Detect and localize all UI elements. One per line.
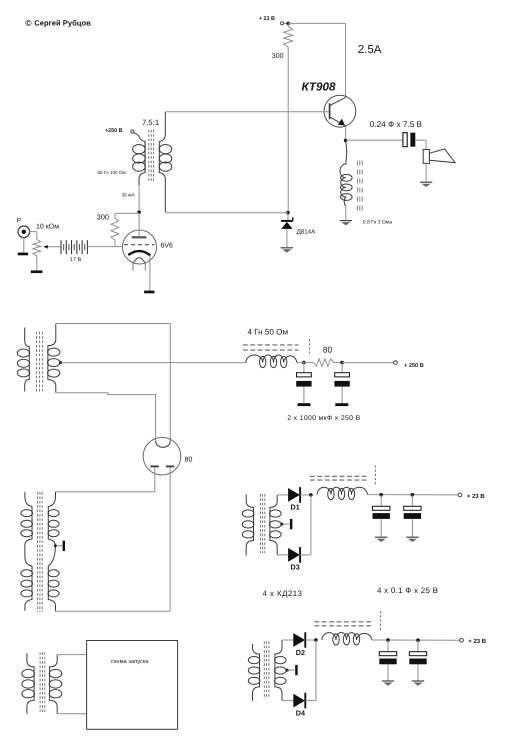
label 300 (R1) xyxy=(272,53,284,60)
wire L2 to terminal xyxy=(367,494,458,496)
ground T5 tap bar xyxy=(295,665,298,675)
capacitor C-out plate 1 xyxy=(403,133,407,147)
wire right plate lead xyxy=(56,467,171,611)
terminal +250V output xyxy=(394,361,398,365)
input jack pin xyxy=(22,230,26,234)
label +250V xyxy=(105,128,123,134)
svg-text:4 х 0.1 Ф х 25 В: 4 х 0.1 Ф х 25 В xyxy=(377,586,438,595)
wire jack to ground xyxy=(23,238,25,253)
zener VD1 triangle xyxy=(281,222,292,229)
copyright text xyxy=(34,18,91,27)
svg-text:D2: D2 xyxy=(296,648,305,657)
wire T4 bottom to D3 xyxy=(277,554,288,556)
transistor Q1 base bar xyxy=(329,103,331,119)
svg-text:2 х 1000 мкФ х 250 В: 2 х 1000 мкФ х 250 В xyxy=(287,415,360,422)
ground C1 xyxy=(298,403,311,406)
tube V1 anode plate xyxy=(132,236,147,238)
label D1 xyxy=(291,503,300,512)
capacitor C2 1000uF xyxy=(334,363,349,404)
zener VD1 cathode bar xyxy=(281,217,293,221)
wire jack to pot xyxy=(30,232,37,240)
wire T4 top to D1 xyxy=(277,494,288,496)
wire collector xyxy=(345,23,347,97)
tube V2 right plate xyxy=(166,465,174,467)
node T4 center tap xyxy=(281,523,284,526)
label 60H 100ohm xyxy=(98,170,126,175)
label P xyxy=(17,217,22,224)
wire speaker to ground xyxy=(425,163,427,182)
ground C6 xyxy=(412,681,424,686)
svg-text:КТ908: КТ908 xyxy=(302,81,336,94)
node zener junction xyxy=(286,211,290,215)
wire node to R3 xyxy=(297,362,314,364)
choke L1 core xyxy=(243,345,299,350)
choke L3 core end mark xyxy=(379,611,381,630)
tube V2 80 envelope xyxy=(143,437,181,475)
choke L1 4H xyxy=(246,355,297,368)
tube V1 heater legs xyxy=(133,264,145,271)
capacitor C4 0.1F xyxy=(404,495,421,537)
tube V2 filament arc xyxy=(156,441,171,448)
label 17V xyxy=(70,257,82,263)
capacitor C1 1000uF xyxy=(296,363,311,404)
tube V1 6V6 envelope xyxy=(123,230,157,264)
label 300 (R2) xyxy=(97,212,109,221)
node T5 center tap xyxy=(286,669,289,672)
label D4 xyxy=(296,708,305,717)
ground C5 xyxy=(382,681,394,686)
svg-text:©: © xyxy=(25,18,32,28)
transistor Q1 KT908 circle xyxy=(324,95,356,127)
wire left plate lead xyxy=(56,467,155,492)
wire cap to speaker xyxy=(415,140,426,149)
svg-text:D4: D4 xyxy=(296,708,305,717)
label 80 (R3) xyxy=(323,344,333,354)
transformer T5 core xyxy=(264,641,269,698)
transformer T4 core xyxy=(260,494,264,553)
label +250V output xyxy=(404,363,424,369)
choke L2 xyxy=(317,487,367,499)
svg-text:+ 23 В: + 23 В xyxy=(467,493,486,500)
label startup circuit xyxy=(111,659,150,665)
inductor 0.8H winding xyxy=(340,140,352,206)
label 4xKD213 xyxy=(263,589,303,598)
ground C2 xyxy=(335,403,348,406)
node filter-1 junction xyxy=(302,361,306,365)
svg-text:300: 300 xyxy=(97,212,109,221)
svg-text:80: 80 xyxy=(323,344,333,354)
node cap-4 junction xyxy=(411,493,415,497)
wire battery to grid xyxy=(87,246,123,248)
transformer T4 secondary winding xyxy=(270,495,282,555)
diode D4 xyxy=(293,693,305,709)
label 6V6 xyxy=(161,242,174,249)
node emitter junction xyxy=(344,139,348,143)
potentiometer wiper arrow xyxy=(43,245,61,249)
wire inductor to ground xyxy=(345,207,347,221)
capacitor C3 0.1F xyxy=(373,495,390,537)
wire T6 bottom to box xyxy=(57,713,86,715)
wire D2 to node xyxy=(305,639,316,641)
choke L3 core xyxy=(314,622,371,626)
wire T2 top lead xyxy=(56,323,171,325)
copyright symbol xyxy=(25,18,32,28)
transformer T6 primary winding xyxy=(22,653,35,714)
wire T6 top to box xyxy=(57,654,86,656)
wire T2 bottom lead xyxy=(56,393,156,441)
node cap-5 junction xyxy=(386,638,390,642)
tube V1 grid xyxy=(124,244,155,246)
transformer T3 secondary winding xyxy=(48,492,59,611)
node cap-6 junction xyxy=(416,638,420,642)
transformer T1 core xyxy=(149,130,154,181)
terminal +23V out-1 xyxy=(458,493,462,497)
wire T1 primary to anode node xyxy=(138,182,140,212)
choke L2 core end mark xyxy=(374,465,376,484)
svg-text:Сергей Рубцов: Сергей Рубцов xyxy=(34,18,91,27)
label +23V out-2 xyxy=(468,638,487,645)
label 10kOhm xyxy=(36,223,59,230)
label 0.8H 3ohm xyxy=(363,219,392,225)
svg-text:6V6: 6V6 xyxy=(161,242,174,249)
svg-text:Р: Р xyxy=(17,217,22,224)
capacitor C6 0.1F xyxy=(409,640,426,680)
speaker driver xyxy=(423,150,429,164)
transformer T1 primary winding xyxy=(133,133,146,182)
wire terminal to node xyxy=(284,22,288,24)
diode D2 xyxy=(293,632,305,648)
ground T3 tap bar xyxy=(63,541,65,551)
node filter-2 junction xyxy=(340,361,344,365)
ground zener xyxy=(281,248,293,253)
speaker horn xyxy=(430,149,456,163)
terminal +250V xyxy=(131,130,134,133)
tube V2 left plate xyxy=(150,465,158,467)
resistor R3 80 xyxy=(313,359,333,367)
transformer T3 primary winding xyxy=(21,492,33,611)
svg-text:D3: D3 xyxy=(291,563,300,572)
svg-text:+ 23 В: + 23 В xyxy=(259,16,275,22)
label 4x0.1F xyxy=(377,586,438,595)
ground speaker xyxy=(420,182,432,187)
node cap-3 junction xyxy=(379,493,383,497)
transformer T5 secondary winding xyxy=(275,640,287,701)
svg-text:60 Гн 100 Ом: 60 Гн 100 Ом xyxy=(98,170,126,175)
resistor R1 300 xyxy=(284,26,293,47)
wire T4 tap xyxy=(282,523,290,525)
label 30mA xyxy=(122,193,136,199)
ground cathode xyxy=(144,291,154,294)
svg-text:0.8 Гн 3 Ома: 0.8 Гн 3 Ома xyxy=(363,219,392,225)
ground inductor xyxy=(340,221,352,226)
wire R1 down to zener node xyxy=(287,47,289,213)
wire L3 to terminal xyxy=(372,639,460,641)
battery 17V xyxy=(61,240,87,254)
svg-text:300: 300 xyxy=(272,53,284,60)
wire right anode drop xyxy=(169,324,171,441)
capacitor C5 0.1F xyxy=(379,640,396,681)
node T3 center tap xyxy=(54,544,57,547)
wire anode node to grid resistor xyxy=(115,212,139,214)
transformer T1 primary lead mark xyxy=(138,180,140,186)
terminal +23V out-2 xyxy=(460,638,464,642)
wire cathode xyxy=(149,255,151,290)
svg-text:7,5:1: 7,5:1 xyxy=(142,118,159,127)
wire node to resistor xyxy=(287,23,289,26)
potentiometer 10k xyxy=(33,239,41,255)
startup circuit box xyxy=(87,641,178,730)
wire D4 up to node xyxy=(305,640,316,701)
transformer T2 secondary winding xyxy=(48,324,60,393)
wire D3 up to node xyxy=(300,495,311,555)
transformer T2 primary winding xyxy=(17,328,29,392)
wire R3 to node xyxy=(334,362,343,364)
terminal +23V xyxy=(281,22,284,25)
choke L2 core xyxy=(310,476,367,480)
wire T5 bottom to D4 xyxy=(282,700,293,702)
wire T5 tap xyxy=(287,669,295,671)
svg-text:80: 80 xyxy=(185,457,193,464)
label 2.5A xyxy=(358,44,382,56)
svg-text:17 В: 17 В xyxy=(70,257,82,263)
transformer T6 secondary winding xyxy=(49,655,62,714)
label KT908 xyxy=(302,81,336,94)
resistor R2 300 grid xyxy=(111,213,119,246)
wire base rail xyxy=(165,111,329,113)
svg-text:4 х КД213: 4 х КД213 xyxy=(263,589,303,598)
svg-text:2.5A: 2.5A xyxy=(358,44,382,56)
svg-text:+ 250 В: + 250 В xyxy=(404,363,424,369)
label 2x1000uF xyxy=(287,415,360,422)
svg-text:30 мА: 30 мА xyxy=(122,193,136,199)
node collector-supply junction xyxy=(286,22,290,26)
wire pot to ground xyxy=(36,256,38,271)
wire emitter xyxy=(345,126,347,140)
svg-text:4 Гн 50 Ом: 4 Гн 50 Ом xyxy=(248,328,289,337)
transformer T6 core xyxy=(40,652,45,712)
transformer T5 primary winding xyxy=(248,644,260,701)
tube V1 cathode xyxy=(128,251,150,255)
ground pot xyxy=(31,270,43,273)
label +23V out-1 xyxy=(467,493,486,500)
choke L3 xyxy=(322,633,372,645)
wire center tap rail xyxy=(61,362,246,364)
diode D1 xyxy=(288,487,300,503)
wire zener top xyxy=(287,213,289,220)
input jack outer xyxy=(18,226,30,238)
label +23V supply xyxy=(259,16,275,22)
capacitor C-out plate 2 xyxy=(410,133,415,147)
svg-text:+250 В: +250 В xyxy=(105,128,123,134)
wire T3 tap xyxy=(55,545,62,547)
label D3 xyxy=(291,563,300,572)
node rectifier-2 junction xyxy=(314,638,318,642)
wire top rail xyxy=(288,22,345,24)
label D2 xyxy=(296,648,305,657)
label D814A xyxy=(297,228,317,235)
svg-text:D1: D1 xyxy=(291,503,300,512)
svg-text:схема запуска: схема запуска xyxy=(111,659,150,665)
svg-text:Д814А: Д814А xyxy=(297,228,317,235)
ground C3 xyxy=(375,537,387,542)
wire emitter to cap xyxy=(346,139,403,141)
transformer T2 core xyxy=(37,332,43,393)
svg-text:10 кОм: 10 кОм xyxy=(36,223,59,230)
svg-text:+ 23 В: + 23 В xyxy=(468,638,487,645)
label 0.24F x 7.5V xyxy=(370,120,423,129)
transformer T1 secondary winding xyxy=(159,112,172,213)
wire to +250V terminal xyxy=(342,362,393,364)
wire D1 to node xyxy=(300,494,311,496)
label 4H 50ohm xyxy=(248,328,289,337)
transformer T4 primary winding xyxy=(242,494,254,555)
wire secondary to zener node xyxy=(165,212,288,214)
transistor Q1 collector stroke xyxy=(330,97,346,105)
label 7,5:1 xyxy=(142,118,159,127)
ground C4 xyxy=(406,537,418,542)
tube V1 anode lead xyxy=(138,212,140,236)
node T2 center tap xyxy=(59,361,62,364)
transistor Q1 emitter arrowhead xyxy=(338,119,345,126)
wire T5 top to D2 xyxy=(282,639,293,641)
transistor Q1 emitter stroke xyxy=(330,117,346,126)
choke L1 core end mark xyxy=(308,339,310,353)
svg-text:0.24 Ф х 7.5 В: 0.24 Ф х 7.5 В xyxy=(370,120,423,129)
label 80 tube xyxy=(185,457,193,464)
transformer T3 core xyxy=(38,492,43,612)
ground jack xyxy=(18,253,28,256)
inductor 0.8H core xyxy=(357,161,362,214)
diode D3 xyxy=(288,547,300,563)
wire zener to ground xyxy=(286,229,288,247)
ground T4 tap bar xyxy=(290,519,293,529)
node rectifier-1 junction xyxy=(309,493,313,497)
tube V1 heater xyxy=(133,258,145,264)
node anode junction xyxy=(137,211,141,215)
